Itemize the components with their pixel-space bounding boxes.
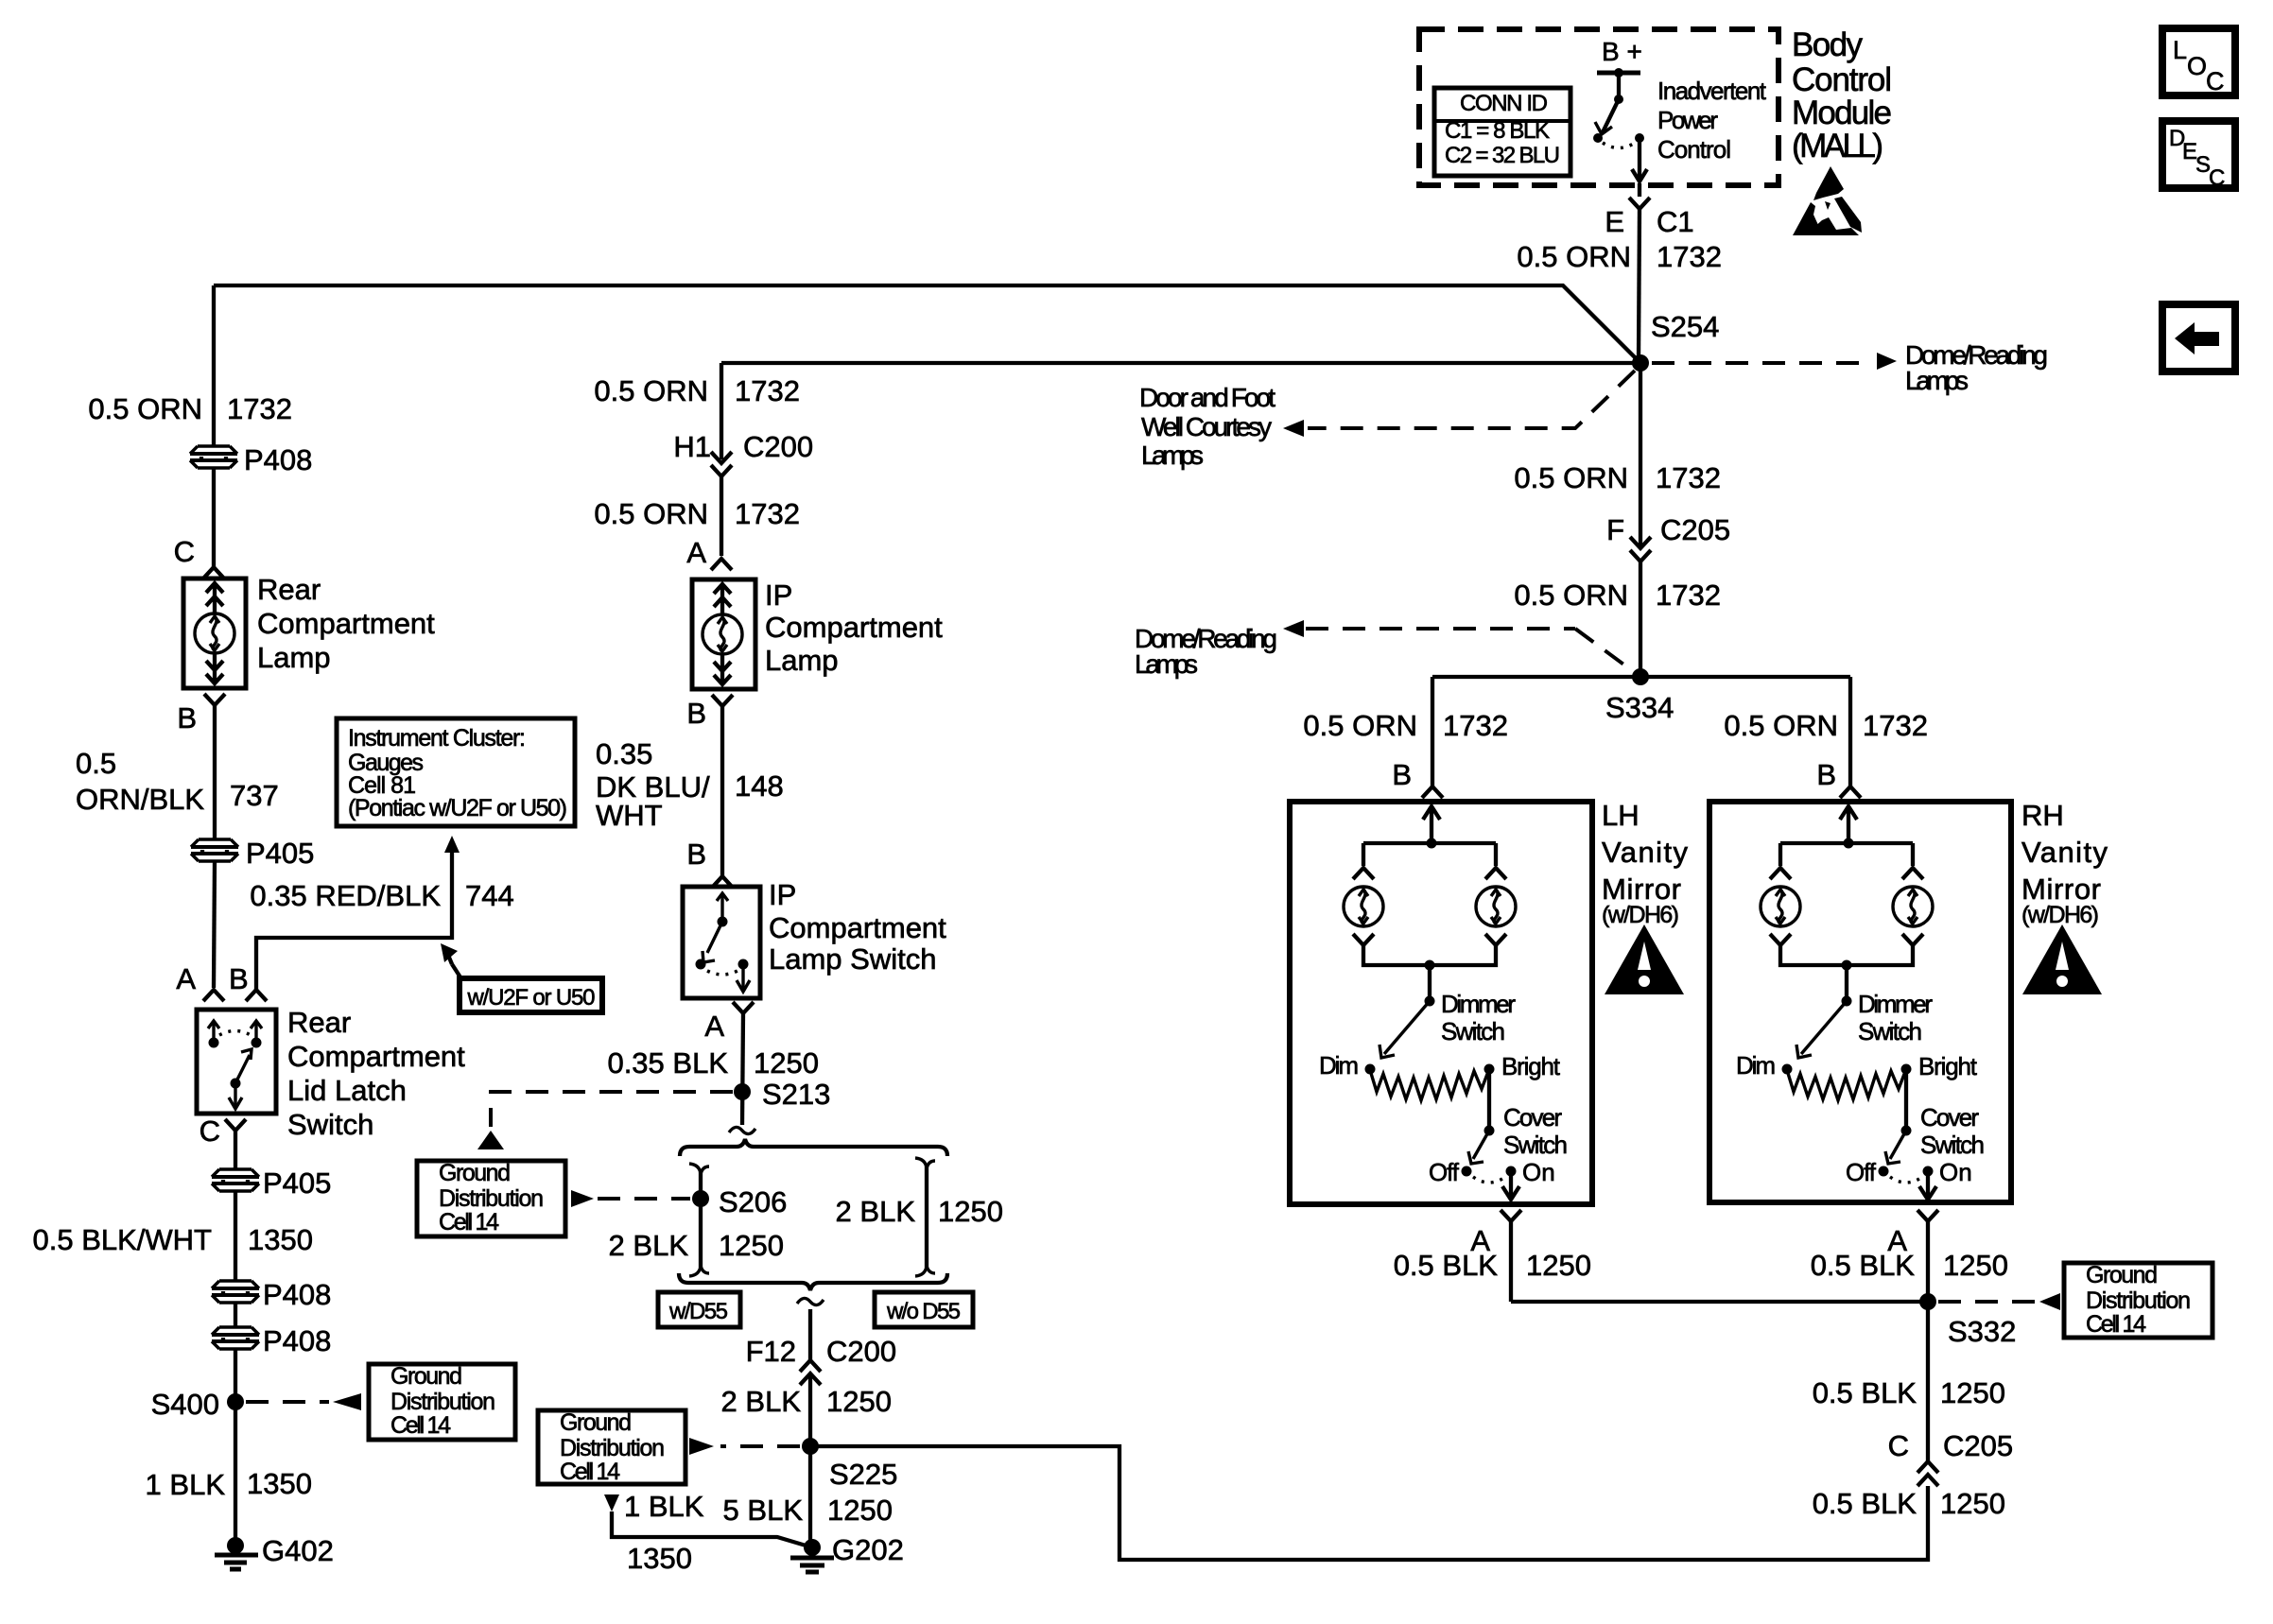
svg-text:0.5 ORN: 0.5 ORN <box>1514 461 1628 494</box>
svg-text:Lamp: Lamp <box>257 641 331 674</box>
svg-text:(Pontiac w/U2F or U50): (Pontiac w/U2F or U50) <box>348 795 567 821</box>
svg-text:P408: P408 <box>263 1324 331 1357</box>
svg-text:1250: 1250 <box>1526 1249 1591 1282</box>
svg-text:B: B <box>686 697 706 730</box>
svg-text:1350: 1350 <box>627 1542 692 1575</box>
svg-text:Distribution: Distribution <box>560 1435 665 1461</box>
svg-text:Off: Off <box>1429 1158 1460 1186</box>
svg-text:0.5: 0.5 <box>76 747 116 780</box>
svg-text:Switch: Switch <box>1503 1131 1568 1159</box>
svg-text:Off: Off <box>1846 1158 1877 1186</box>
svg-text:S400: S400 <box>151 1388 219 1421</box>
svg-text:A: A <box>686 536 706 569</box>
svg-text:Lamp Switch: Lamp Switch <box>769 942 936 976</box>
svg-text:Module: Module <box>1792 95 1892 131</box>
svg-text:B: B <box>229 962 249 995</box>
svg-text:0.35 BLK: 0.35 BLK <box>607 1046 728 1080</box>
svg-text:0.5 BLK: 0.5 BLK <box>1394 1249 1499 1282</box>
svg-text:0.35: 0.35 <box>596 737 652 770</box>
svg-text:5 BLK: 5 BLK <box>723 1494 804 1527</box>
svg-text:Vanity: Vanity <box>1602 836 1689 869</box>
svg-text:Cover: Cover <box>1503 1103 1562 1132</box>
svg-text:1732: 1732 <box>1863 709 1928 742</box>
svg-text:1250: 1250 <box>938 1195 1003 1228</box>
svg-text:(MALL): (MALL) <box>1792 128 1883 164</box>
svg-text:S213: S213 <box>762 1078 830 1111</box>
svg-text:Mirror: Mirror <box>2021 872 2101 906</box>
svg-text:P408: P408 <box>263 1278 331 1311</box>
svg-text:1732: 1732 <box>1656 579 1721 612</box>
svg-text:Switch: Switch <box>1858 1017 1922 1045</box>
svg-text:On: On <box>1522 1158 1555 1186</box>
svg-text:Lid Latch: Lid Latch <box>287 1074 407 1107</box>
svg-text:0.5 ORN: 0.5 ORN <box>88 392 202 425</box>
svg-text:Control: Control <box>1657 135 1731 164</box>
svg-text:S225: S225 <box>829 1458 897 1491</box>
svg-text:ORN/BLK: ORN/BLK <box>76 783 204 816</box>
svg-text:737: 737 <box>230 779 279 812</box>
svg-text:1250: 1250 <box>719 1229 784 1262</box>
svg-text:Mirror: Mirror <box>1602 872 1681 906</box>
svg-text:C205: C205 <box>1660 513 1730 546</box>
svg-text:(w/DH6): (w/DH6) <box>2021 902 2099 928</box>
svg-text:w/D55: w/D55 <box>668 1299 728 1324</box>
svg-text:LH: LH <box>1602 799 1640 832</box>
svg-text:1 BLK: 1 BLK <box>624 1490 704 1523</box>
svg-text:C200: C200 <box>743 430 813 463</box>
svg-text:C2 = 32 BLU: C2 = 32 BLU <box>1445 143 1560 168</box>
svg-text:Distribution: Distribution <box>2086 1287 2191 1314</box>
svg-text:0.5 ORN: 0.5 ORN <box>1517 240 1631 273</box>
svg-text:0.5 BLK: 0.5 BLK <box>1813 1487 1917 1520</box>
svg-text:S254: S254 <box>1651 310 1719 343</box>
svg-text:1250: 1250 <box>754 1046 819 1080</box>
svg-text:Ground: Ground <box>2086 1262 2158 1288</box>
svg-text:Distribution: Distribution <box>390 1389 495 1415</box>
svg-text:Power: Power <box>1657 106 1718 134</box>
svg-text:1350: 1350 <box>247 1467 312 1500</box>
svg-text:C: C <box>1888 1429 1909 1462</box>
svg-text:E: E <box>1605 205 1624 238</box>
svg-text:Compartment: Compartment <box>257 607 435 640</box>
svg-text:1732: 1732 <box>735 497 800 530</box>
svg-text:0.5 ORN: 0.5 ORN <box>594 374 708 407</box>
svg-text:Compartment: Compartment <box>287 1040 465 1073</box>
svg-text:Control: Control <box>1792 61 1892 98</box>
svg-text:1350: 1350 <box>248 1223 313 1256</box>
svg-text:F: F <box>1606 513 1624 546</box>
svg-text:Bright: Bright <box>1918 1052 1978 1080</box>
svg-text:1732: 1732 <box>227 392 292 425</box>
svg-text:Well Courtesy: Well Courtesy <box>1141 412 1272 441</box>
svg-text:O: O <box>2187 52 2207 80</box>
svg-text:C: C <box>174 535 195 568</box>
svg-text:w/U2F or U50: w/U2F or U50 <box>467 985 596 1011</box>
svg-text:Switch: Switch <box>1920 1131 1985 1159</box>
svg-text:C1: C1 <box>1657 205 1694 238</box>
svg-text:B: B <box>1816 758 1836 791</box>
svg-text:0.5 BLK/WHT: 0.5 BLK/WHT <box>33 1223 213 1256</box>
svg-text:B +: B + <box>1602 37 1642 66</box>
svg-text:1250: 1250 <box>826 1385 892 1418</box>
svg-text:H1: H1 <box>673 430 711 463</box>
svg-text:A: A <box>704 1010 724 1043</box>
svg-text:B: B <box>177 701 197 734</box>
svg-text:2 BLK: 2 BLK <box>609 1229 689 1262</box>
svg-text:1732: 1732 <box>735 374 800 407</box>
svg-text:WHT: WHT <box>596 799 663 832</box>
svg-text:0.5 ORN: 0.5 ORN <box>594 497 708 530</box>
svg-text:Cover: Cover <box>1920 1103 1979 1132</box>
svg-text:Vanity: Vanity <box>2021 836 2108 869</box>
svg-text:Lamps: Lamps <box>1135 649 1198 679</box>
svg-text:0.5 ORN: 0.5 ORN <box>1514 579 1628 612</box>
svg-text:148: 148 <box>735 769 784 803</box>
svg-text:IP: IP <box>769 878 796 911</box>
svg-text:Lamps: Lamps <box>1905 366 1969 395</box>
svg-text:Lamps: Lamps <box>1141 441 1204 470</box>
svg-text:1732: 1732 <box>1443 709 1508 742</box>
svg-text:0.5 BLK: 0.5 BLK <box>1813 1376 1917 1409</box>
svg-text:Dim: Dim <box>1319 1051 1359 1080</box>
svg-text:1250: 1250 <box>1943 1249 2008 1282</box>
svg-text:Cell 14: Cell 14 <box>390 1412 451 1439</box>
svg-text:w/o D55: w/o D55 <box>886 1299 961 1324</box>
svg-text:C200: C200 <box>826 1335 896 1368</box>
svg-text:P405: P405 <box>263 1166 331 1200</box>
svg-text:IP: IP <box>765 579 792 612</box>
svg-text:0.5 ORN: 0.5 ORN <box>1724 709 1838 742</box>
svg-text:Dimmer: Dimmer <box>1441 990 1516 1018</box>
svg-text:P408: P408 <box>244 443 312 476</box>
svg-text:Rear: Rear <box>287 1006 351 1039</box>
svg-text:Switch: Switch <box>287 1108 373 1141</box>
svg-text:1250: 1250 <box>1940 1487 2005 1520</box>
svg-text:B: B <box>686 838 706 871</box>
svg-text:On: On <box>1939 1158 1972 1186</box>
svg-text:744: 744 <box>465 879 514 912</box>
svg-text:Body: Body <box>1792 26 1864 63</box>
svg-text:Instrument Cluster:: Instrument Cluster: <box>348 725 526 752</box>
svg-text:Ground: Ground <box>439 1160 511 1186</box>
svg-text:2 BLK: 2 BLK <box>836 1195 916 1228</box>
svg-text:Switch: Switch <box>1441 1017 1505 1045</box>
svg-text:1732: 1732 <box>1657 240 1722 273</box>
svg-text:P405: P405 <box>246 837 314 870</box>
svg-text:Door and Foot: Door and Foot <box>1139 383 1275 412</box>
svg-text:0.35 RED/BLK: 0.35 RED/BLK <box>250 879 441 912</box>
svg-text:S332: S332 <box>1948 1315 2016 1348</box>
svg-text:0.5 ORN: 0.5 ORN <box>1303 709 1417 742</box>
svg-text:C1 = 8 BLK: C1 = 8 BLK <box>1445 118 1550 144</box>
svg-text:RH: RH <box>2021 799 2064 832</box>
svg-text:Dim: Dim <box>1736 1051 1776 1080</box>
svg-text:C: C <box>2206 67 2225 95</box>
svg-text:S206: S206 <box>719 1185 787 1218</box>
svg-text:Compartment: Compartment <box>769 911 946 944</box>
svg-text:Ground: Ground <box>560 1409 632 1436</box>
svg-text:Rear: Rear <box>257 573 321 606</box>
svg-text:2 BLK: 2 BLK <box>721 1385 802 1418</box>
svg-text:B: B <box>1392 758 1412 791</box>
svg-text:C: C <box>200 1114 220 1148</box>
svg-text:1250: 1250 <box>827 1494 893 1527</box>
svg-text:Cell 14: Cell 14 <box>560 1459 620 1485</box>
svg-text:0.5 BLK: 0.5 BLK <box>1811 1249 1916 1282</box>
svg-text:Dimmer: Dimmer <box>1858 990 1933 1018</box>
svg-text:L: L <box>2173 36 2187 64</box>
svg-text:G202: G202 <box>832 1533 904 1566</box>
svg-text:(w/DH6): (w/DH6) <box>1602 902 1679 928</box>
svg-text:S334: S334 <box>1605 691 1674 724</box>
svg-text:C: C <box>2209 165 2225 191</box>
svg-text:Cell 14: Cell 14 <box>439 1209 499 1235</box>
svg-text:1250: 1250 <box>1940 1376 2005 1409</box>
svg-text:Cell 14: Cell 14 <box>2086 1311 2146 1338</box>
svg-text:Lamp: Lamp <box>765 644 839 677</box>
svg-text:A: A <box>176 962 196 995</box>
svg-text:1732: 1732 <box>1656 461 1721 494</box>
svg-text:1 BLK: 1 BLK <box>146 1468 226 1501</box>
svg-text:Inadvertent: Inadvertent <box>1657 77 1767 105</box>
svg-text:Distribution: Distribution <box>439 1185 544 1212</box>
svg-text:CONN ID: CONN ID <box>1460 91 1548 116</box>
svg-text:G402: G402 <box>262 1534 334 1567</box>
svg-text:C205: C205 <box>1943 1429 2013 1462</box>
svg-text:Bright: Bright <box>1501 1052 1561 1080</box>
svg-text:Ground: Ground <box>390 1363 462 1390</box>
svg-text:F12: F12 <box>746 1335 796 1368</box>
svg-text:Compartment: Compartment <box>765 611 943 644</box>
